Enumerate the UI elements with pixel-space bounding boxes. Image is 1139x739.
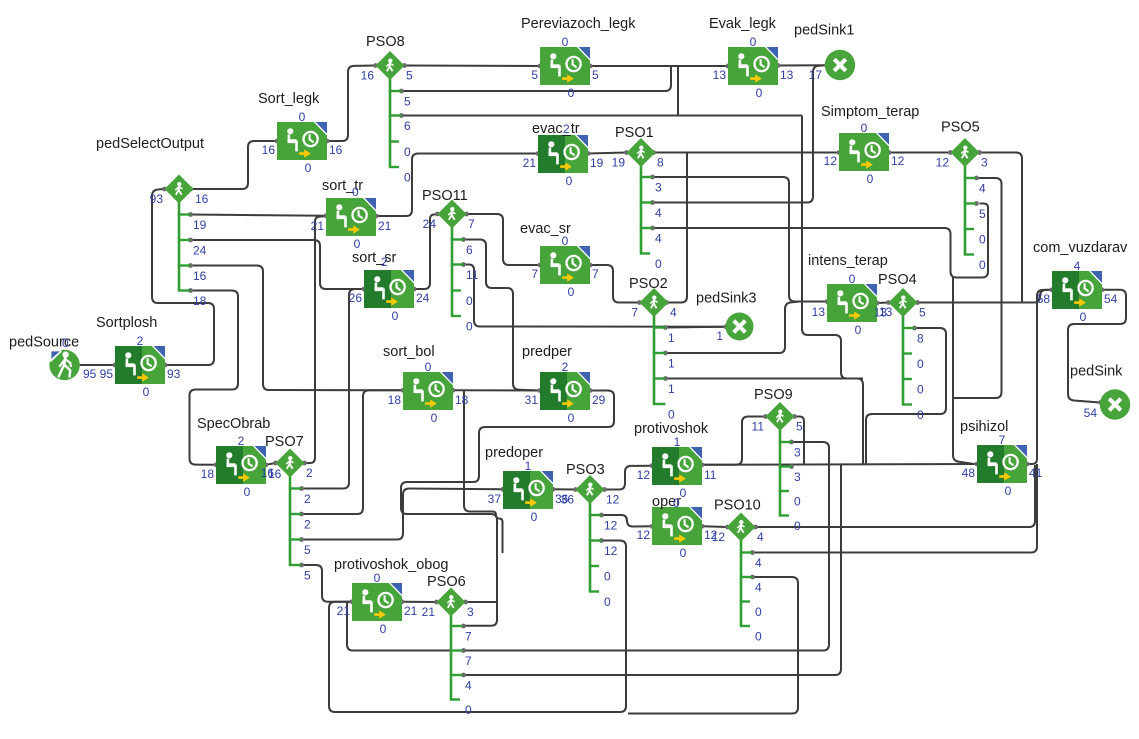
wire protivoshok to PSO9 bbox=[702, 417, 766, 465]
wire junction drop Evak line bbox=[677, 67, 679, 116]
svg-text:12: 12 bbox=[712, 530, 726, 544]
wire PSO10 out2 to protivoshok_obog bbox=[628, 577, 798, 714]
wire pedSource to Sortplosh bbox=[77, 364, 115, 366]
svg-text:8: 8 bbox=[917, 332, 924, 346]
service block protivoshok bbox=[634, 421, 717, 500]
wire PSO3 out1 to oper bbox=[602, 515, 653, 527]
svg-text:Sortplosh: Sortplosh bbox=[96, 315, 157, 331]
svg-text:0: 0 bbox=[568, 86, 575, 100]
wire protivoshok to psihizol bbox=[702, 463, 977, 466]
svg-text:6: 6 bbox=[466, 243, 473, 257]
svg-text:16: 16 bbox=[193, 269, 207, 283]
svg-text:21: 21 bbox=[378, 219, 392, 233]
wire sort_bol to predper bbox=[453, 389, 540, 391]
svg-text:58: 58 bbox=[1037, 292, 1051, 306]
svg-text:PSO8: PSO8 bbox=[366, 34, 405, 50]
svg-text:54: 54 bbox=[1084, 406, 1098, 420]
svg-text:19: 19 bbox=[193, 218, 207, 232]
service block Sort_legk bbox=[258, 91, 343, 175]
svg-text:pedSink1: pedSink1 bbox=[794, 23, 854, 39]
svg-text:24: 24 bbox=[193, 244, 207, 258]
svg-text:95: 95 bbox=[100, 367, 114, 381]
svg-text:intens_terap: intens_terap bbox=[808, 253, 888, 269]
wire PSO4 out1 to psihizol bbox=[866, 328, 946, 464]
svg-text:1: 1 bbox=[716, 329, 723, 343]
svg-text:37: 37 bbox=[488, 492, 502, 506]
svg-text:4: 4 bbox=[755, 556, 762, 570]
svg-text:0: 0 bbox=[756, 86, 763, 100]
svg-text:21: 21 bbox=[422, 605, 436, 619]
wire PSO2 out1 to pedSink3 bbox=[666, 326, 726, 329]
svg-text:2: 2 bbox=[238, 434, 245, 448]
svg-text:16: 16 bbox=[262, 143, 276, 157]
svg-text:0: 0 bbox=[299, 110, 306, 124]
wire pedSelectOutput out1 to sort_tr bbox=[191, 215, 327, 216]
svg-text:5: 5 bbox=[979, 207, 986, 221]
service block predper bbox=[522, 344, 606, 425]
svg-text:0: 0 bbox=[917, 383, 924, 397]
svg-text:0: 0 bbox=[867, 172, 874, 186]
svg-text:0: 0 bbox=[466, 294, 473, 308]
svg-text:5: 5 bbox=[919, 306, 926, 320]
svg-text:predper: predper bbox=[522, 344, 572, 360]
svg-text:29: 29 bbox=[592, 393, 606, 407]
wire PSO1 out0 to Simptom_terap bbox=[654, 152, 840, 154]
wire Simptom_terap to PSO5 bbox=[889, 152, 951, 154]
svg-text:4: 4 bbox=[655, 232, 662, 246]
svg-text:2: 2 bbox=[304, 492, 311, 506]
svg-text:0: 0 bbox=[794, 495, 801, 509]
svg-text:Evak_legk: Evak_legk bbox=[709, 16, 777, 32]
svg-text:4: 4 bbox=[655, 206, 662, 220]
pedSource bbox=[9, 335, 97, 382]
svg-text:3: 3 bbox=[655, 181, 662, 195]
svg-text:0: 0 bbox=[305, 161, 312, 175]
svg-text:0: 0 bbox=[755, 630, 762, 644]
svg-text:2: 2 bbox=[563, 122, 570, 136]
wire Evak_legk to pedSink1 bbox=[778, 64, 825, 66]
wire vertical to psihizol bbox=[953, 278, 974, 465]
svg-text:3: 3 bbox=[981, 156, 988, 170]
svg-text:4: 4 bbox=[670, 306, 677, 320]
wire com_vuzdarav to pedSink bbox=[1068, 290, 1126, 403]
wire PSO1 out2 up to pedSink1 bbox=[653, 65, 826, 202]
svg-text:PSO5: PSO5 bbox=[941, 120, 980, 136]
wire PSO11 out0 to evac_sr bbox=[467, 214, 541, 265]
wire PSO3 out2 to protivoshok_obog bbox=[329, 541, 626, 713]
select output PSO1 bbox=[612, 125, 664, 271]
svg-text:4: 4 bbox=[979, 182, 986, 196]
svg-text:protivoshok_obog: protivoshok_obog bbox=[334, 557, 448, 573]
svg-text:0: 0 bbox=[1080, 310, 1087, 324]
wire PSO11 out2 to pedSink3 bbox=[464, 265, 726, 327]
svg-text:5: 5 bbox=[531, 68, 538, 82]
svg-text:0: 0 bbox=[566, 174, 573, 188]
wire PSO9 out1 to protivoshok_obog bbox=[347, 442, 829, 651]
select output PSO3 bbox=[561, 462, 620, 609]
svg-text:PSO11: PSO11 bbox=[422, 188, 468, 204]
wire pedSelectOutput out0 to Sort_legk bbox=[191, 141, 277, 189]
svg-text:18: 18 bbox=[201, 467, 215, 481]
svg-text:0: 0 bbox=[680, 546, 687, 560]
wire Pereviazoch_legk to Evak_legk bbox=[590, 65, 728, 67]
svg-text:0: 0 bbox=[352, 185, 359, 199]
svg-text:PSO1: PSO1 bbox=[615, 125, 654, 141]
svg-text:16: 16 bbox=[195, 192, 209, 206]
wire Sortplosh to pedSelectOutput bbox=[152, 189, 214, 365]
svg-text:19: 19 bbox=[612, 156, 626, 170]
svg-text:Simptom_terap: Simptom_terap bbox=[821, 104, 919, 120]
svg-text:1: 1 bbox=[668, 382, 675, 396]
svg-text:evac_sr: evac_sr bbox=[520, 221, 571, 237]
svg-text:2: 2 bbox=[381, 255, 388, 269]
svg-text:psihizol: psihizol bbox=[960, 419, 1008, 435]
svg-text:7: 7 bbox=[465, 630, 472, 644]
wire PSO10 out0 up bbox=[756, 465, 1036, 527]
svg-text:24: 24 bbox=[416, 291, 430, 305]
svg-text:pedSelectOutput: pedSelectOutput bbox=[96, 136, 204, 152]
svg-text:0: 0 bbox=[531, 510, 538, 524]
wire PSO5 out0 to com_vuzdarav bbox=[980, 153, 1023, 303]
svg-text:12: 12 bbox=[604, 519, 618, 533]
svg-text:24: 24 bbox=[423, 217, 437, 231]
wire oper to PSO10 bbox=[702, 525, 728, 528]
svg-text:36: 36 bbox=[561, 493, 575, 507]
svg-text:0: 0 bbox=[562, 35, 569, 49]
svg-text:PSO9: PSO9 bbox=[754, 387, 793, 403]
svg-text:21: 21 bbox=[523, 156, 537, 170]
pedSink bbox=[1070, 364, 1130, 421]
svg-text:12: 12 bbox=[637, 468, 651, 482]
svg-text:13: 13 bbox=[812, 305, 826, 319]
select output PSO7 bbox=[261, 434, 313, 583]
svg-text:0: 0 bbox=[655, 257, 662, 271]
svg-text:3: 3 bbox=[794, 470, 801, 484]
wire PSO11 out1 to predper bbox=[464, 240, 541, 391]
service block intens_terap bbox=[808, 253, 893, 337]
svg-text:0: 0 bbox=[917, 408, 924, 422]
svg-text:0: 0 bbox=[354, 237, 361, 251]
wire pedSelectOutput out4 to SpecObrab bbox=[190, 291, 239, 465]
wire stray vertical bbox=[464, 390, 503, 553]
select output PSO11 bbox=[422, 188, 479, 334]
wire PSO7 out3 to predoper bbox=[302, 489, 504, 540]
wire PSO8 out1 up to Evak_legk wire bbox=[402, 67, 672, 92]
service block com_vuzdarav bbox=[1033, 240, 1128, 324]
select output PSO10 bbox=[712, 498, 764, 644]
svg-text:13: 13 bbox=[713, 68, 727, 82]
svg-text:0: 0 bbox=[465, 703, 472, 717]
wire PSO5 out1 down bbox=[953, 178, 1002, 398]
service block Sortplosh bbox=[96, 315, 181, 399]
svg-text:7: 7 bbox=[531, 267, 538, 281]
port dots bbox=[75, 63, 1104, 677]
svg-text:0: 0 bbox=[604, 570, 611, 584]
svg-text:1: 1 bbox=[525, 459, 532, 473]
svg-text:31: 31 bbox=[525, 393, 539, 407]
service block evac_tr bbox=[523, 121, 604, 188]
service block sort_sr bbox=[349, 250, 430, 323]
svg-text:PSO7: PSO7 bbox=[265, 434, 304, 450]
svg-text:0: 0 bbox=[755, 605, 762, 619]
wire stair wire to psihizol bbox=[802, 116, 863, 465]
svg-text:18: 18 bbox=[193, 294, 207, 308]
pedSink3 bbox=[696, 291, 756, 344]
wire PSO6 out3 to psihizol bbox=[463, 464, 842, 675]
svg-text:0: 0 bbox=[794, 519, 801, 533]
wire evac_tr to PSO1 bbox=[588, 153, 627, 154]
wire PSO7 out4 to protivoshok_obog bbox=[302, 565, 353, 602]
service block Evak_legk bbox=[709, 16, 794, 100]
svg-text:12: 12 bbox=[824, 154, 838, 168]
svg-text:4: 4 bbox=[1074, 259, 1081, 273]
svg-text:93: 93 bbox=[150, 192, 164, 206]
svg-text:12: 12 bbox=[606, 493, 620, 507]
svg-text:sort_sr: sort_sr bbox=[352, 250, 396, 266]
svg-text:0: 0 bbox=[374, 571, 381, 585]
svg-text:8: 8 bbox=[657, 156, 664, 170]
svg-text:0: 0 bbox=[849, 272, 856, 286]
svg-text:5: 5 bbox=[406, 69, 413, 83]
svg-text:0: 0 bbox=[917, 357, 924, 371]
svg-text:17: 17 bbox=[809, 68, 823, 82]
svg-text:2: 2 bbox=[304, 518, 311, 532]
svg-text:0: 0 bbox=[404, 171, 411, 185]
svg-text:41: 41 bbox=[1029, 466, 1043, 480]
svg-text:5: 5 bbox=[404, 95, 411, 109]
svg-text:1: 1 bbox=[674, 435, 681, 449]
svg-text:93: 93 bbox=[167, 367, 181, 381]
select output pedSelectOutput bbox=[96, 136, 209, 308]
svg-text:18: 18 bbox=[388, 393, 402, 407]
svg-text:SpecObrab: SpecObrab bbox=[197, 416, 270, 432]
svg-text:0: 0 bbox=[244, 485, 251, 499]
svg-text:7: 7 bbox=[468, 217, 475, 231]
svg-text:3: 3 bbox=[467, 605, 474, 619]
wire PSO6 out0 stub bbox=[466, 601, 498, 603]
wire intens_terap to PSO4 bbox=[877, 302, 889, 305]
wire PSO7 out2 to sort_bol bbox=[302, 390, 404, 514]
svg-text:2: 2 bbox=[306, 466, 313, 480]
svg-text:12: 12 bbox=[891, 154, 905, 168]
service block sort_tr bbox=[311, 178, 392, 251]
wire protivoshok_obog to PSO6 bbox=[402, 601, 437, 603]
svg-text:predoper: predoper bbox=[485, 445, 543, 461]
svg-text:21: 21 bbox=[404, 604, 418, 618]
svg-text:4: 4 bbox=[755, 581, 762, 595]
wire PSO1 out3 across bbox=[653, 204, 989, 278]
svg-text:16: 16 bbox=[261, 466, 275, 480]
svg-text:PSO3: PSO3 bbox=[566, 462, 605, 478]
select output PSO9 bbox=[752, 387, 803, 533]
svg-text:0: 0 bbox=[466, 320, 473, 334]
svg-text:21: 21 bbox=[311, 219, 325, 233]
wire PSO1 out1 to intens_terap bbox=[653, 177, 828, 302]
service block protivoshok_obog bbox=[334, 557, 448, 636]
svg-text:16: 16 bbox=[329, 143, 343, 157]
service block sort_bol bbox=[383, 344, 469, 425]
service block SpecObrab bbox=[197, 416, 282, 499]
svg-text:13: 13 bbox=[780, 68, 794, 82]
select output PSO6 bbox=[422, 574, 474, 717]
svg-text:11: 11 bbox=[752, 420, 765, 434]
svg-text:48: 48 bbox=[962, 466, 976, 480]
svg-text:protivoshok: protivoshok bbox=[634, 421, 709, 437]
wire PSO8 out0 to Pereviazoch_legk bbox=[405, 65, 541, 68]
svg-text:Sort_legk: Sort_legk bbox=[258, 91, 320, 107]
select output PSO4 bbox=[874, 272, 926, 422]
svg-text:12: 12 bbox=[637, 528, 651, 542]
svg-text:PSO2: PSO2 bbox=[629, 276, 668, 292]
svg-text:PSO6: PSO6 bbox=[427, 574, 466, 590]
service block Pereviazoch_legk bbox=[521, 16, 636, 100]
svg-text:11: 11 bbox=[704, 468, 717, 482]
svg-text:0: 0 bbox=[568, 411, 575, 425]
svg-text:6: 6 bbox=[404, 119, 411, 133]
select output PSO5 bbox=[936, 120, 988, 273]
svg-text:5: 5 bbox=[304, 569, 311, 583]
wire PSO4 out0 to com_vuzdarav bbox=[918, 290, 1053, 303]
svg-text:4: 4 bbox=[757, 530, 764, 544]
svg-text:7: 7 bbox=[631, 306, 638, 320]
svg-text:0: 0 bbox=[392, 309, 399, 323]
svg-text:95: 95 bbox=[83, 367, 97, 381]
svg-text:0: 0 bbox=[979, 258, 986, 272]
wire pedSelectOutput out3 to sort_bol bbox=[191, 266, 404, 391]
svg-text:0: 0 bbox=[1005, 484, 1012, 498]
wire PSO2 out2 to intens_terap bbox=[666, 302, 801, 354]
svg-text:PSO10: PSO10 bbox=[714, 498, 761, 514]
wire PSO7 out1 to sort_sr bbox=[302, 289, 365, 489]
svg-text:0: 0 bbox=[425, 360, 432, 374]
svg-text:0: 0 bbox=[750, 35, 757, 49]
svg-text:0: 0 bbox=[404, 145, 411, 159]
svg-text:0: 0 bbox=[380, 622, 387, 636]
wire PSO2 out0 up to Simptom wire bbox=[667, 153, 688, 303]
wire PSO9 out0 to psihizol wire bbox=[795, 417, 805, 465]
svg-text:0: 0 bbox=[861, 121, 868, 135]
svg-text:5: 5 bbox=[592, 68, 599, 82]
svg-text:1: 1 bbox=[668, 331, 675, 345]
wire sort_tr to evac_tr bbox=[376, 154, 538, 217]
svg-text:12: 12 bbox=[936, 156, 950, 170]
svg-text:19: 19 bbox=[590, 156, 604, 170]
wire predoper to PSO3 bbox=[553, 488, 576, 490]
svg-text:5: 5 bbox=[304, 543, 311, 557]
svg-text:13: 13 bbox=[874, 306, 888, 320]
svg-text:11: 11 bbox=[466, 268, 479, 282]
service block predoper bbox=[485, 445, 569, 524]
select output PSO8 bbox=[361, 34, 413, 185]
wire PSO7 out0 to sort_tr bbox=[305, 216, 325, 463]
svg-text:7: 7 bbox=[465, 654, 472, 668]
svg-text:evac_tr: evac_tr bbox=[532, 121, 580, 137]
svg-text:PSO4: PSO4 bbox=[878, 272, 917, 288]
svg-text:2: 2 bbox=[562, 360, 569, 374]
wire predper loop wire bbox=[401, 391, 614, 626]
wire pedSelectOutput out2 to sort_sr bbox=[191, 240, 365, 289]
wire SpecObrab to PSO7 bbox=[266, 463, 276, 465]
svg-text:7: 7 bbox=[592, 267, 599, 281]
svg-text:pedSink: pedSink bbox=[1070, 364, 1123, 380]
svg-text:sort_bol: sort_bol bbox=[383, 344, 435, 360]
svg-text:com_vuzdarav: com_vuzdarav bbox=[1033, 240, 1128, 256]
svg-text:0: 0 bbox=[143, 385, 150, 399]
wire PSO2 out3 merge bbox=[666, 378, 864, 380]
svg-text:16: 16 bbox=[361, 69, 375, 83]
svg-text:pedSink3: pedSink3 bbox=[696, 291, 756, 307]
wire PSO3 out0 to protivoshok bbox=[605, 466, 653, 490]
svg-text:0: 0 bbox=[604, 595, 611, 609]
svg-text:54: 54 bbox=[1104, 292, 1118, 306]
svg-text:21: 21 bbox=[337, 604, 351, 618]
svg-text:0: 0 bbox=[979, 233, 986, 247]
svg-text:0: 0 bbox=[431, 411, 438, 425]
wire psihizol to com_vuzdarav bbox=[1027, 290, 1052, 464]
svg-text:1: 1 bbox=[668, 357, 675, 371]
pedSink1 bbox=[794, 23, 855, 83]
svg-text:0: 0 bbox=[568, 285, 575, 299]
svg-text:3: 3 bbox=[794, 446, 801, 460]
svg-text:18: 18 bbox=[455, 393, 469, 407]
svg-text:2: 2 bbox=[137, 334, 144, 348]
service block oper bbox=[637, 494, 718, 560]
wire Sort_legk to PSO8 bbox=[327, 66, 376, 142]
svg-text:5: 5 bbox=[796, 420, 803, 434]
svg-text:Pereviazoch_legk: Pereviazoch_legk bbox=[521, 16, 636, 32]
wire sort_sr to PSO11 bbox=[414, 214, 438, 289]
svg-text:0: 0 bbox=[668, 408, 675, 422]
svg-text:0: 0 bbox=[855, 323, 862, 337]
select output PSO2 bbox=[629, 276, 677, 422]
wire PSO8 out2 long bbox=[402, 115, 803, 117]
svg-text:26: 26 bbox=[349, 291, 363, 305]
service block psihizol bbox=[960, 419, 1043, 498]
svg-text:0: 0 bbox=[62, 336, 69, 350]
wire evac_sr to PSO2 bbox=[590, 265, 640, 303]
service block Simptom_terap bbox=[821, 104, 919, 186]
svg-text:7: 7 bbox=[999, 433, 1006, 447]
service block evac_sr bbox=[520, 221, 599, 299]
svg-text:12: 12 bbox=[604, 544, 618, 558]
svg-text:0: 0 bbox=[673, 496, 680, 510]
wire PSO10 out1 up bbox=[753, 464, 1038, 553]
svg-text:4: 4 bbox=[465, 679, 472, 693]
